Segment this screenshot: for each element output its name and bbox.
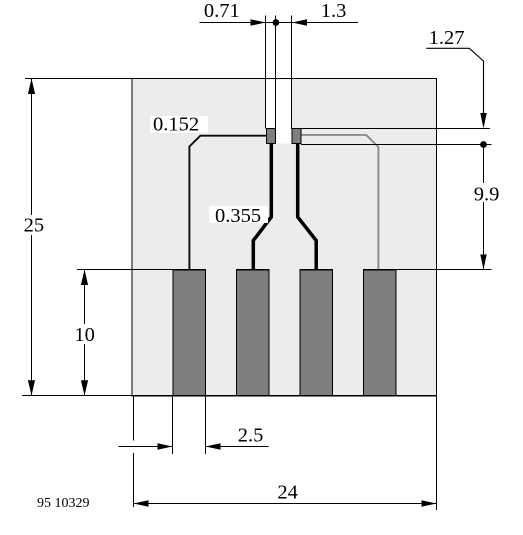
svg-text:1.3: 1.3 <box>321 0 347 22</box>
arrow right-pointing 2.5 <box>158 443 173 450</box>
solder land 4 <box>364 270 397 396</box>
svg-text:0.152: 0.152 <box>153 114 199 136</box>
extension line square bottom left <box>22 395 132 397</box>
dimension line 9.9 <box>483 145 485 270</box>
arrow down 25 <box>28 380 35 395</box>
svg-text:0.71: 0.71 <box>204 0 240 22</box>
extension line right pad left edge <box>291 16 293 130</box>
extension line small pads top <box>301 128 490 130</box>
small pad right <box>292 129 301 144</box>
label 10 <box>72 324 97 344</box>
arrow up 10 <box>81 270 88 286</box>
arrow left end 24 <box>134 500 149 507</box>
solder land 3 <box>300 270 333 396</box>
svg-text:0.355: 0.355 <box>215 205 261 227</box>
extension line land1 left bottom <box>172 396 174 454</box>
extension line small pad right edge <box>275 16 277 130</box>
dimension line 2.5 left part <box>119 446 173 448</box>
label 25 <box>21 215 46 235</box>
arrow down 1.27 <box>480 113 486 129</box>
solder land 2 <box>237 270 270 396</box>
extension line square right edge bottom <box>436 396 438 510</box>
extension line lands top right <box>396 269 492 271</box>
svg-text:25: 25 <box>24 215 45 237</box>
trace 0.355 right (small pad to land 3) <box>298 141 317 270</box>
PCB substrate square <box>132 79 437 396</box>
arrow down 10 <box>81 380 88 395</box>
white lead slot channel <box>266 79 292 143</box>
arrow right end 24 <box>422 500 437 507</box>
small pad left <box>266 129 275 144</box>
dot terminator top <box>273 19 280 26</box>
label 9.9 <box>471 183 499 202</box>
dimension line 10 <box>84 270 86 396</box>
label 0.152 <box>150 116 208 133</box>
extension line square top left <box>25 78 132 80</box>
svg-text:10: 10 <box>74 324 95 346</box>
svg-text:1.27: 1.27 <box>429 27 465 49</box>
svg-text:9.9: 9.9 <box>474 184 500 206</box>
solder land 1 <box>173 270 206 396</box>
extension line square left edge bottom <box>133 396 135 441</box>
extension line small pads bottom <box>301 144 492 146</box>
trace 0.152 left (small pad to land 1) <box>189 136 266 270</box>
trace 0.152 right (small pad to land 4) <box>301 135 379 270</box>
extension line lands top left <box>77 269 173 271</box>
dot terminator 9.9 top <box>480 141 487 148</box>
trace 0.355 left (small pad to land 2) <box>253 141 271 270</box>
dimension line 25 <box>31 79 33 396</box>
arrow right-pointing 0.71 <box>251 19 266 26</box>
arrow down 9.9 <box>480 255 486 270</box>
svg-text:95 10329: 95 10329 <box>37 496 90 511</box>
extension line land1 right bottom <box>205 396 207 454</box>
leader 1.27 <box>426 48 483 126</box>
svg-text:24: 24 <box>277 481 298 503</box>
dimension line 24 <box>134 503 437 505</box>
arrow up 25 <box>28 79 35 95</box>
extension line small pad left edge <box>265 16 267 129</box>
svg-text:2.5: 2.5 <box>238 424 264 446</box>
arrow left-pointing 1.3 <box>292 19 307 26</box>
dimension line 0.71 / 1.3 <box>200 22 359 24</box>
label 0.355 <box>209 206 268 223</box>
arrow left-pointing 2.5 <box>206 443 221 450</box>
dimension line 2.5 right part <box>206 446 269 448</box>
